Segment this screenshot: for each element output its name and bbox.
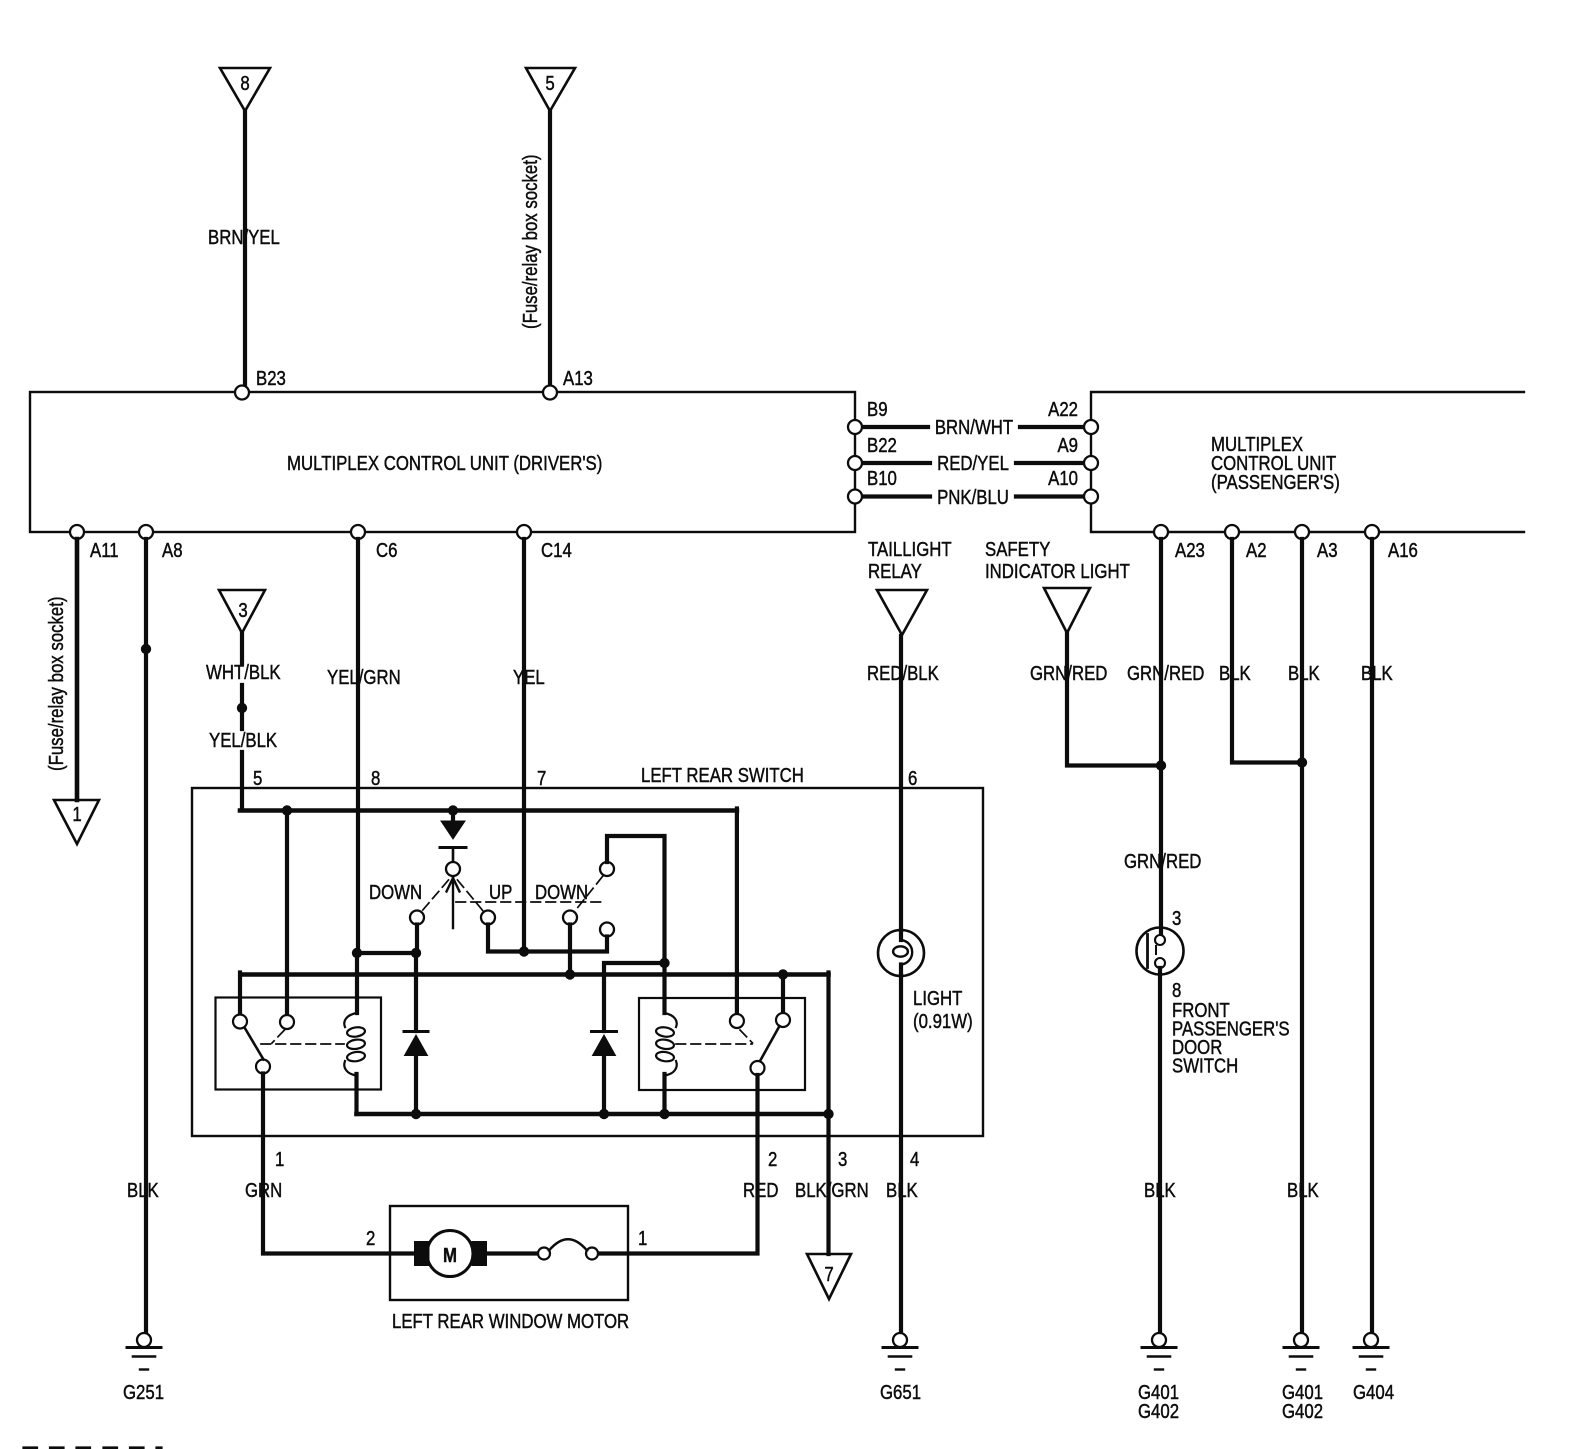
svg-text:BRN/WHT: BRN/WHT <box>935 416 1013 439</box>
junction dot diode D3 bus <box>599 1109 609 1119</box>
contact C <box>481 911 495 925</box>
svg-text:GRN: GRN <box>245 1179 282 1202</box>
relay K2 arm <box>760 1026 780 1061</box>
svg-text:B23: B23 <box>256 367 286 390</box>
pin A13 <box>543 386 557 400</box>
connector triangle 7 <box>807 1254 851 1299</box>
connector triangle 1 <box>54 800 99 844</box>
wire relay2 NC feed <box>781 975 785 1014</box>
motor limit arc <box>549 1239 587 1250</box>
svg-text:A11: A11 <box>90 539 119 562</box>
svg-text:A3: A3 <box>1317 539 1338 562</box>
svg-text:GRN/RED: GRN/RED <box>1124 850 1201 873</box>
junction dot diode D2 bus <box>411 1109 421 1119</box>
wire BLK door switch to ground <box>1158 968 1162 1333</box>
diode D3 <box>592 1032 617 1115</box>
relay K2 coil <box>655 1013 676 1076</box>
wire coil2 bottom to ground bus <box>662 1074 666 1114</box>
wire GRN relay1 common to motor <box>263 1074 412 1254</box>
wire bus pin5 feed <box>240 808 737 813</box>
pin B22 <box>848 456 862 470</box>
svg-text:INDICATOR LIGHT: INDICATOR LIGHT <box>985 560 1130 583</box>
pin B10 <box>848 490 862 504</box>
wire YEL/GRN C6 to left coil pin 8 <box>357 539 358 1013</box>
wire WHT/BLK YEL/BLK to switch pin 5 <box>240 633 244 809</box>
svg-text:2: 2 <box>366 1227 375 1250</box>
ground G404 <box>1354 1333 1388 1370</box>
wire BLK bulb to G651 <box>899 975 903 1333</box>
svg-text:A16: A16 <box>1388 539 1418 562</box>
svg-text:RED/BLK: RED/BLK <box>867 662 939 685</box>
dashed linkage lines <box>422 877 605 912</box>
ground G651 <box>883 1333 917 1370</box>
wire relay coil branch x287 <box>285 811 289 1016</box>
wire contact D down to bus <box>568 925 572 976</box>
wire segment to diode D2 <box>357 951 416 955</box>
left rear switch box <box>192 788 983 1136</box>
svg-text:(Fuse/relay box socket): (Fuse/relay box socket) <box>519 155 542 329</box>
svg-text:6: 6 <box>908 767 917 790</box>
relay K1 common <box>256 1060 270 1074</box>
switch pole contact P1 <box>446 862 460 876</box>
svg-text:G404: G404 <box>1353 1381 1394 1404</box>
svg-text:B22: B22 <box>867 434 897 457</box>
contact E <box>600 862 614 876</box>
svg-text:YEL/BLK: YEL/BLK <box>209 729 278 752</box>
multiplex control unit passenger's box U2 <box>1091 392 1524 532</box>
wire RED relay2 common to motor <box>598 1075 758 1254</box>
taillight relay triangle <box>877 590 927 635</box>
pin A16 <box>1365 525 1379 539</box>
wire contact E up over to coil column <box>607 836 665 1013</box>
relay K1 contact b <box>280 1015 294 1029</box>
junction dot x357 <box>352 948 362 958</box>
svg-text:GRN/RED: GRN/RED <box>1127 662 1204 685</box>
pin A9 <box>1084 456 1098 470</box>
svg-text:G651: G651 <box>880 1381 921 1404</box>
svg-text:A2: A2 <box>1246 539 1267 562</box>
svg-text:1: 1 <box>72 803 81 826</box>
relay K1 dashed linkage <box>261 1030 344 1044</box>
contact F <box>600 923 614 937</box>
wire contact C to pin7 node to contact F <box>488 925 607 952</box>
relay K1 arm <box>245 1028 264 1060</box>
pin A10 <box>1084 490 1098 504</box>
junction dot x570 <box>565 969 575 979</box>
right relay K2 box <box>639 998 805 1090</box>
wire A11 to fuse/relay box socket connector <box>75 539 80 800</box>
wire RED/YEL B22 to A9 <box>862 461 1084 465</box>
svg-text:BLK: BLK <box>1287 1179 1319 1202</box>
svg-text:4: 4 <box>910 1148 919 1171</box>
relay K1 contact a <box>233 1015 247 1029</box>
safety indicator light triangle <box>1044 588 1090 633</box>
svg-text:8: 8 <box>371 767 380 790</box>
pin A8 <box>139 525 153 539</box>
svg-text:A8: A8 <box>162 539 183 562</box>
svg-text:7: 7 <box>537 767 546 790</box>
svg-text:UP: UP <box>489 881 512 904</box>
pin B23 <box>235 386 249 400</box>
svg-text:C6: C6 <box>376 539 397 562</box>
pin A2 <box>1225 525 1239 539</box>
svg-text:RED: RED <box>743 1179 778 1202</box>
pin C6 <box>351 525 365 539</box>
motor limit contact circles <box>538 1248 550 1260</box>
left relay K1 box <box>216 998 382 1090</box>
junction dot pin7 <box>519 946 529 956</box>
junction dot x783 <box>778 969 788 979</box>
svg-text:G402: G402 <box>1138 1400 1179 1423</box>
pin A23 <box>1154 525 1168 539</box>
ground G401/G402 left <box>1142 1333 1176 1370</box>
svg-text:SWITCH: SWITCH <box>1172 1054 1238 1077</box>
lamp bulb LIGHT 0.91W <box>878 930 924 976</box>
wire BRN/YEL from triangle 8 to B23 <box>243 111 247 388</box>
left rear window motor box <box>390 1206 628 1300</box>
svg-text:BLK: BLK <box>1144 1179 1176 1202</box>
wire BLK A2 over to A3 <box>1232 539 1300 763</box>
wire from triangle 5 to A13 <box>548 111 552 388</box>
junction dot x287 <box>282 805 292 815</box>
wire GRN/RED safety to A23 wire <box>1067 633 1159 766</box>
pole arm <box>447 877 460 928</box>
wire bus right corner down to pin 3 <box>826 973 830 1255</box>
svg-text:A23: A23 <box>1175 539 1205 562</box>
wire relay2 contact feed <box>735 809 739 1015</box>
wire bus left corner to relay contact <box>238 973 242 1015</box>
svg-text:TAILLIGHT: TAILLIGHT <box>868 538 952 561</box>
svg-text:LIGHT: LIGHT <box>913 987 962 1010</box>
svg-text:3: 3 <box>838 1148 847 1171</box>
wire BRN/WHT B9 to A22 <box>862 425 1084 429</box>
svg-text:A13: A13 <box>563 367 593 390</box>
svg-text:(Fuse/relay box socket): (Fuse/relay box socket) <box>45 597 68 771</box>
pin B9 <box>848 420 862 434</box>
svg-text:A10: A10 <box>1048 467 1078 490</box>
pin A11 <box>70 525 84 539</box>
svg-text:YEL/GRN: YEL/GRN <box>327 666 401 689</box>
svg-text:PNK/BLU: PNK/BLU <box>937 486 1009 509</box>
junction dot A23 safety <box>1156 760 1166 770</box>
svg-text:3: 3 <box>1172 907 1181 930</box>
svg-text:1: 1 <box>275 1148 284 1171</box>
contact B <box>410 911 424 925</box>
svg-text:LEFT REAR WINDOW MOTOR: LEFT REAR WINDOW MOTOR <box>392 1310 629 1333</box>
svg-text:B9: B9 <box>867 398 888 421</box>
svg-text:8: 8 <box>240 72 249 95</box>
connector triangle 3 <box>219 590 265 633</box>
svg-text:B10: B10 <box>867 467 897 490</box>
wire coil1 bottom to ground bus <box>354 1074 358 1114</box>
wire motor internal <box>488 1251 538 1255</box>
svg-text:(0.91W): (0.91W) <box>913 1010 973 1033</box>
contact D <box>563 911 577 925</box>
connector triangle 8 <box>220 68 270 111</box>
ground G401/G402 right <box>1284 1333 1318 1370</box>
diode D2 <box>404 953 428 1114</box>
relay K1 coil <box>344 1013 365 1076</box>
svg-text:G402: G402 <box>1282 1400 1323 1423</box>
pin C14 <box>517 525 531 539</box>
wire YEL C14 to switch pin 7 <box>522 539 526 952</box>
pin A22 <box>1084 420 1098 434</box>
wire BLK A8 to G251 <box>144 539 148 1333</box>
svg-text:7: 7 <box>824 1263 833 1286</box>
wire bus mid <box>241 972 829 977</box>
junction dot A2-A3 <box>1297 757 1307 767</box>
wire GRN/RED A23 to door switch <box>1159 539 1163 935</box>
junction dot x416 <box>411 948 421 958</box>
svg-text:G251: G251 <box>123 1381 164 1404</box>
relay K2 dashed linkage <box>676 1030 753 1044</box>
svg-text:BRN/YEL: BRN/YEL <box>208 226 280 249</box>
pin A3 <box>1295 525 1309 539</box>
svg-text:A9: A9 <box>1057 434 1078 457</box>
relay K2 contact a <box>730 1014 744 1028</box>
svg-text:MULTIPLEX CONTROL UNIT (DRIVER: MULTIPLEX CONTROL UNIT (DRIVER'S) <box>287 452 602 475</box>
svg-text:5: 5 <box>545 72 554 95</box>
junction dot x453 diode feed <box>448 805 458 815</box>
svg-text:2: 2 <box>768 1148 777 1171</box>
svg-text:WHT/BLK: WHT/BLK <box>206 661 281 684</box>
svg-text:C14: C14 <box>541 539 572 562</box>
svg-text:A22: A22 <box>1048 398 1078 421</box>
svg-text:LEFT REAR SWITCH: LEFT REAR SWITCH <box>641 764 804 787</box>
splice on BLK wire <box>141 644 151 654</box>
svg-text:3: 3 <box>238 599 247 622</box>
junction dot E-branch <box>659 958 669 968</box>
svg-text:DOWN: DOWN <box>535 881 588 904</box>
front passenger's door switch S1 <box>1137 928 1184 975</box>
svg-text:5: 5 <box>253 767 262 790</box>
svg-text:DOWN: DOWN <box>369 881 422 904</box>
svg-text:1: 1 <box>638 1227 647 1250</box>
svg-text:M: M <box>443 1244 457 1267</box>
svg-text:BLK: BLK <box>1361 662 1393 685</box>
svg-text:BLK: BLK <box>127 1179 159 1202</box>
wire BLK A3 to ground <box>1300 539 1304 1333</box>
svg-text:RELAY: RELAY <box>868 560 922 583</box>
wire pin6 RED/BLK taillight relay feed <box>899 636 903 930</box>
svg-text:BLK: BLK <box>1219 662 1251 685</box>
multiplex control unit driver's box U1 <box>30 392 855 532</box>
wire BLK A16 to ground <box>1370 539 1374 1333</box>
connector triangle 5 <box>526 68 575 111</box>
svg-text:(PASSENGER'S): (PASSENGER'S) <box>1211 471 1340 494</box>
svg-text:SAFETY: SAFETY <box>985 538 1050 561</box>
page edge tick marks bottom left <box>24 1446 161 1449</box>
motor M1 <box>414 1231 487 1277</box>
junction dot coil2 bus <box>659 1109 669 1119</box>
ground G251 <box>127 1333 161 1370</box>
svg-text:RED/YEL: RED/YEL <box>937 452 1009 475</box>
splice on WHT/BLK wire <box>237 703 247 713</box>
svg-text:BLK: BLK <box>1288 662 1320 685</box>
wire ground bus bottom <box>357 1112 829 1117</box>
svg-text:YEL: YEL <box>513 666 545 689</box>
wire contact B down <box>415 925 419 951</box>
relay K2 contact b <box>776 1013 790 1027</box>
wire PNK/BLU B10 to A10 <box>862 494 1084 498</box>
relay K2 common <box>751 1061 765 1075</box>
svg-text:BLK/GRN: BLK/GRN <box>795 1179 869 1202</box>
junction dot pin3 bus <box>823 1109 833 1119</box>
wire branch to diode D3 <box>604 963 665 1031</box>
diode D1 <box>440 812 466 862</box>
